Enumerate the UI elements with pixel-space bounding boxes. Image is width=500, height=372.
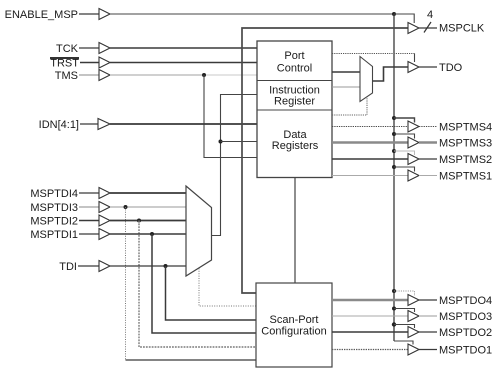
svg-text:Port: Port xyxy=(284,50,304,62)
wire registers to scan-port xyxy=(294,178,296,284)
buffer MSPTDO4 output xyxy=(408,295,419,306)
buffer MSPTDO2 output xyxy=(408,327,419,338)
wire to MSPTMS2 xyxy=(332,158,408,160)
wire MSPTDI3 drop to scan-port (dotted) xyxy=(125,207,127,360)
svg-text:Configuration: Configuration xyxy=(261,326,326,338)
junction MSPTDO3 enable xyxy=(392,307,396,311)
buffer TDO output (tri-state) xyxy=(408,62,419,73)
wire MSPTDI2 stub xyxy=(79,220,99,222)
wire TMS stub xyxy=(79,74,99,76)
buffer MSPTDI3 input xyxy=(99,202,110,213)
wire scan-port to MSPTDO4 (thick) xyxy=(332,299,408,301)
wire MSPTDO3 enable xyxy=(394,309,415,313)
buffer MSPTMS1 output xyxy=(408,170,419,181)
wire TRST stub xyxy=(80,62,99,64)
mux U3 TDO-select xyxy=(360,57,373,102)
buffer TCK input xyxy=(99,43,110,54)
wire TDO enable from port control (dashed) xyxy=(332,53,415,55)
divider port control / instruction register xyxy=(257,80,332,82)
svg-text:TDO: TDO xyxy=(439,62,463,74)
svg-text:TRST: TRST xyxy=(50,58,79,70)
svg-text:MSPTMS2: MSPTMS2 xyxy=(439,154,492,166)
svg-text:MSPTDO2: MSPTDO2 xyxy=(439,327,492,339)
junction MSPTDO4 enable xyxy=(392,289,396,293)
buffer MSPTDI2 input xyxy=(99,215,110,226)
wire TDI drop to scan-port xyxy=(166,266,257,320)
mux U2 TDI-select (left) xyxy=(186,186,212,276)
buffer MSPCLK output (tri-state) xyxy=(408,23,419,34)
wire MSPTDI1 to mux xyxy=(110,233,186,235)
wire MSPTMS3 out xyxy=(419,141,437,143)
wire TMS branch down xyxy=(204,75,257,158)
wire MSPTDI3 stub xyxy=(79,206,99,208)
wire MSPCLK from scan-port up and across xyxy=(242,28,408,293)
svg-text:MSPTMS4: MSPTMS4 xyxy=(439,122,492,134)
wire MSPTDO1 out xyxy=(419,349,437,351)
wire MSPTMS4 out xyxy=(419,126,437,128)
wire MSPTMS1 out (light) xyxy=(419,175,437,177)
buffer MSPTDO3 output xyxy=(408,311,419,322)
bus width slash MSPCLK xyxy=(424,22,431,33)
svg-text:IDN[4:1]: IDN[4:1] xyxy=(39,119,79,131)
wire TRST to box xyxy=(110,62,257,64)
svg-text:MSPTMS3: MSPTMS3 xyxy=(439,138,492,150)
buffer ENABLE_MSP input xyxy=(99,9,110,20)
junction MSPTMS2 enable xyxy=(392,149,396,153)
wire TCK to box xyxy=(110,47,257,49)
wire instruction register to mux U3 input 2 xyxy=(332,86,360,88)
wire to MSPTMS3 (thick) xyxy=(332,141,408,143)
junction MSPTMS1 enable xyxy=(392,165,396,169)
wire ENABLE_MSP to enable bus xyxy=(110,13,394,15)
svg-text:MSPTDI3: MSPTDI3 xyxy=(30,202,78,214)
buffer MSPTDI4 input xyxy=(99,188,110,199)
junction MSPTMS3 enable xyxy=(392,132,396,136)
buffer TDI input xyxy=(99,261,110,272)
wire MSPTDO3 out (light) xyxy=(419,315,437,317)
svg-text:4: 4 xyxy=(427,9,433,21)
buffer TRST input xyxy=(99,57,110,68)
wire MSPTMS1 enable xyxy=(394,167,415,172)
wire MSPCLK out xyxy=(419,27,437,29)
wire TDI to mux xyxy=(110,265,186,267)
wire scan-port to MSPTDO2 xyxy=(332,331,408,333)
wire enable bus vertical xyxy=(393,14,395,341)
block Scan-Port Configuration xyxy=(256,283,332,367)
buffer TMS input xyxy=(99,70,110,81)
wire ENABLE_MSP label stub xyxy=(79,13,99,15)
wire MSPTDI3 to mux (light) xyxy=(110,206,186,208)
wire scan-port to MSPTDO3 (light) xyxy=(332,315,408,317)
wire MSPTDO4 enable (dotted) xyxy=(394,291,415,296)
wire MSPTDI4 to mux xyxy=(110,192,186,194)
wire mux output up to registers xyxy=(212,95,258,236)
svg-text:Registers: Registers xyxy=(272,140,319,152)
svg-text:MSPTDI2: MSPTDI2 xyxy=(30,216,78,228)
svg-text:MSPTDO1: MSPTDO1 xyxy=(439,345,492,357)
svg-text:MSPTMS1: MSPTMS1 xyxy=(439,171,492,183)
divider instruction register / data registers xyxy=(257,109,332,111)
wire mux U3 output to TDO buffer xyxy=(373,67,409,81)
wire MSPTDI1 drop to scan-port xyxy=(152,234,256,333)
svg-text:MSPTDI1: MSPTDI1 xyxy=(30,229,78,241)
wire MSPTDI2 to mux xyxy=(110,220,186,222)
wire enable to MSPCLK buffer xyxy=(394,14,414,23)
wire scan-port to MSPTDO1 (dashed) xyxy=(332,349,408,351)
wire MSPTDO2 out xyxy=(419,331,437,333)
buffer MSPTDI1 input xyxy=(99,229,110,240)
svg-text:MSPTDO4: MSPTDO4 xyxy=(439,295,492,307)
svg-text:ENABLE_MSP: ENABLE_MSP xyxy=(5,9,78,21)
svg-text:Register: Register xyxy=(274,96,315,108)
register block U1 (Port Control / Instruction Register / Data Registers) xyxy=(257,41,332,178)
junction mux output to data registers xyxy=(219,140,223,144)
wire to MSPTMS1 (light) xyxy=(332,175,408,177)
wire mux output branch to data registers xyxy=(221,141,258,143)
junction TDI branch xyxy=(164,264,168,268)
buffer MSPTMS3 output xyxy=(408,137,419,148)
junction MSPTDI2 branch xyxy=(137,219,141,223)
buffer MSPTMS2 output xyxy=(408,154,419,165)
wire MSPTDI4 stub xyxy=(79,192,99,194)
buffer MSPTMS4 output xyxy=(408,121,419,132)
overline TRST xyxy=(50,57,79,59)
wire TDO out xyxy=(419,66,437,68)
wire MSPTMS2 out xyxy=(419,158,437,160)
wire MSPTDO2 enable xyxy=(394,325,415,329)
junction MSPTMS4 enable xyxy=(392,116,396,120)
wire IDN stub xyxy=(80,123,98,125)
svg-text:TCK: TCK xyxy=(56,43,79,55)
junction MSPTDI3 branch xyxy=(124,205,128,209)
wire port control to mux U3 input 1 xyxy=(332,71,360,73)
junction MSPTDI1 branch xyxy=(150,232,154,236)
wire MSPTDO1 enable xyxy=(394,341,413,345)
svg-text:TMS: TMS xyxy=(55,70,78,82)
wire MSPTDI1 stub xyxy=(79,233,99,235)
svg-text:Scan-Port: Scan-Port xyxy=(270,314,319,326)
buffer MSPTDO1 output xyxy=(408,344,419,355)
buffer IDN input xyxy=(98,119,110,130)
junction MSPTDO2 enable xyxy=(392,322,396,326)
svg-text:MSPTDI4: MSPTDI4 xyxy=(30,188,78,200)
junction enable bus top xyxy=(392,12,396,16)
wire MSPTMS4 enable xyxy=(394,118,415,123)
svg-text:MSPTDO3: MSPTDO3 xyxy=(439,311,492,323)
wire MSPTMS3 enable xyxy=(394,134,415,139)
svg-text:Control: Control xyxy=(277,63,312,75)
wire MSPTDI2 drop to scan-port xyxy=(139,221,256,348)
wire MSPTDO4 out xyxy=(419,299,437,301)
wire IDN to box xyxy=(110,123,257,125)
svg-text:MSPCLK: MSPCLK xyxy=(439,23,485,35)
wire TDI stub xyxy=(78,265,99,267)
wire MSPTMS2 enable (light) xyxy=(394,151,415,155)
wire mux U3 select (dashed) xyxy=(332,97,367,115)
wire mux select from scan-port (dotted) xyxy=(199,268,256,307)
svg-text:TDI: TDI xyxy=(59,261,77,273)
wire TCK stub xyxy=(79,47,99,49)
junction TMS branch xyxy=(202,73,206,77)
wire port control to MSPTMS4 (dashed) xyxy=(332,126,408,128)
wire TMS to box (light) xyxy=(110,74,204,76)
